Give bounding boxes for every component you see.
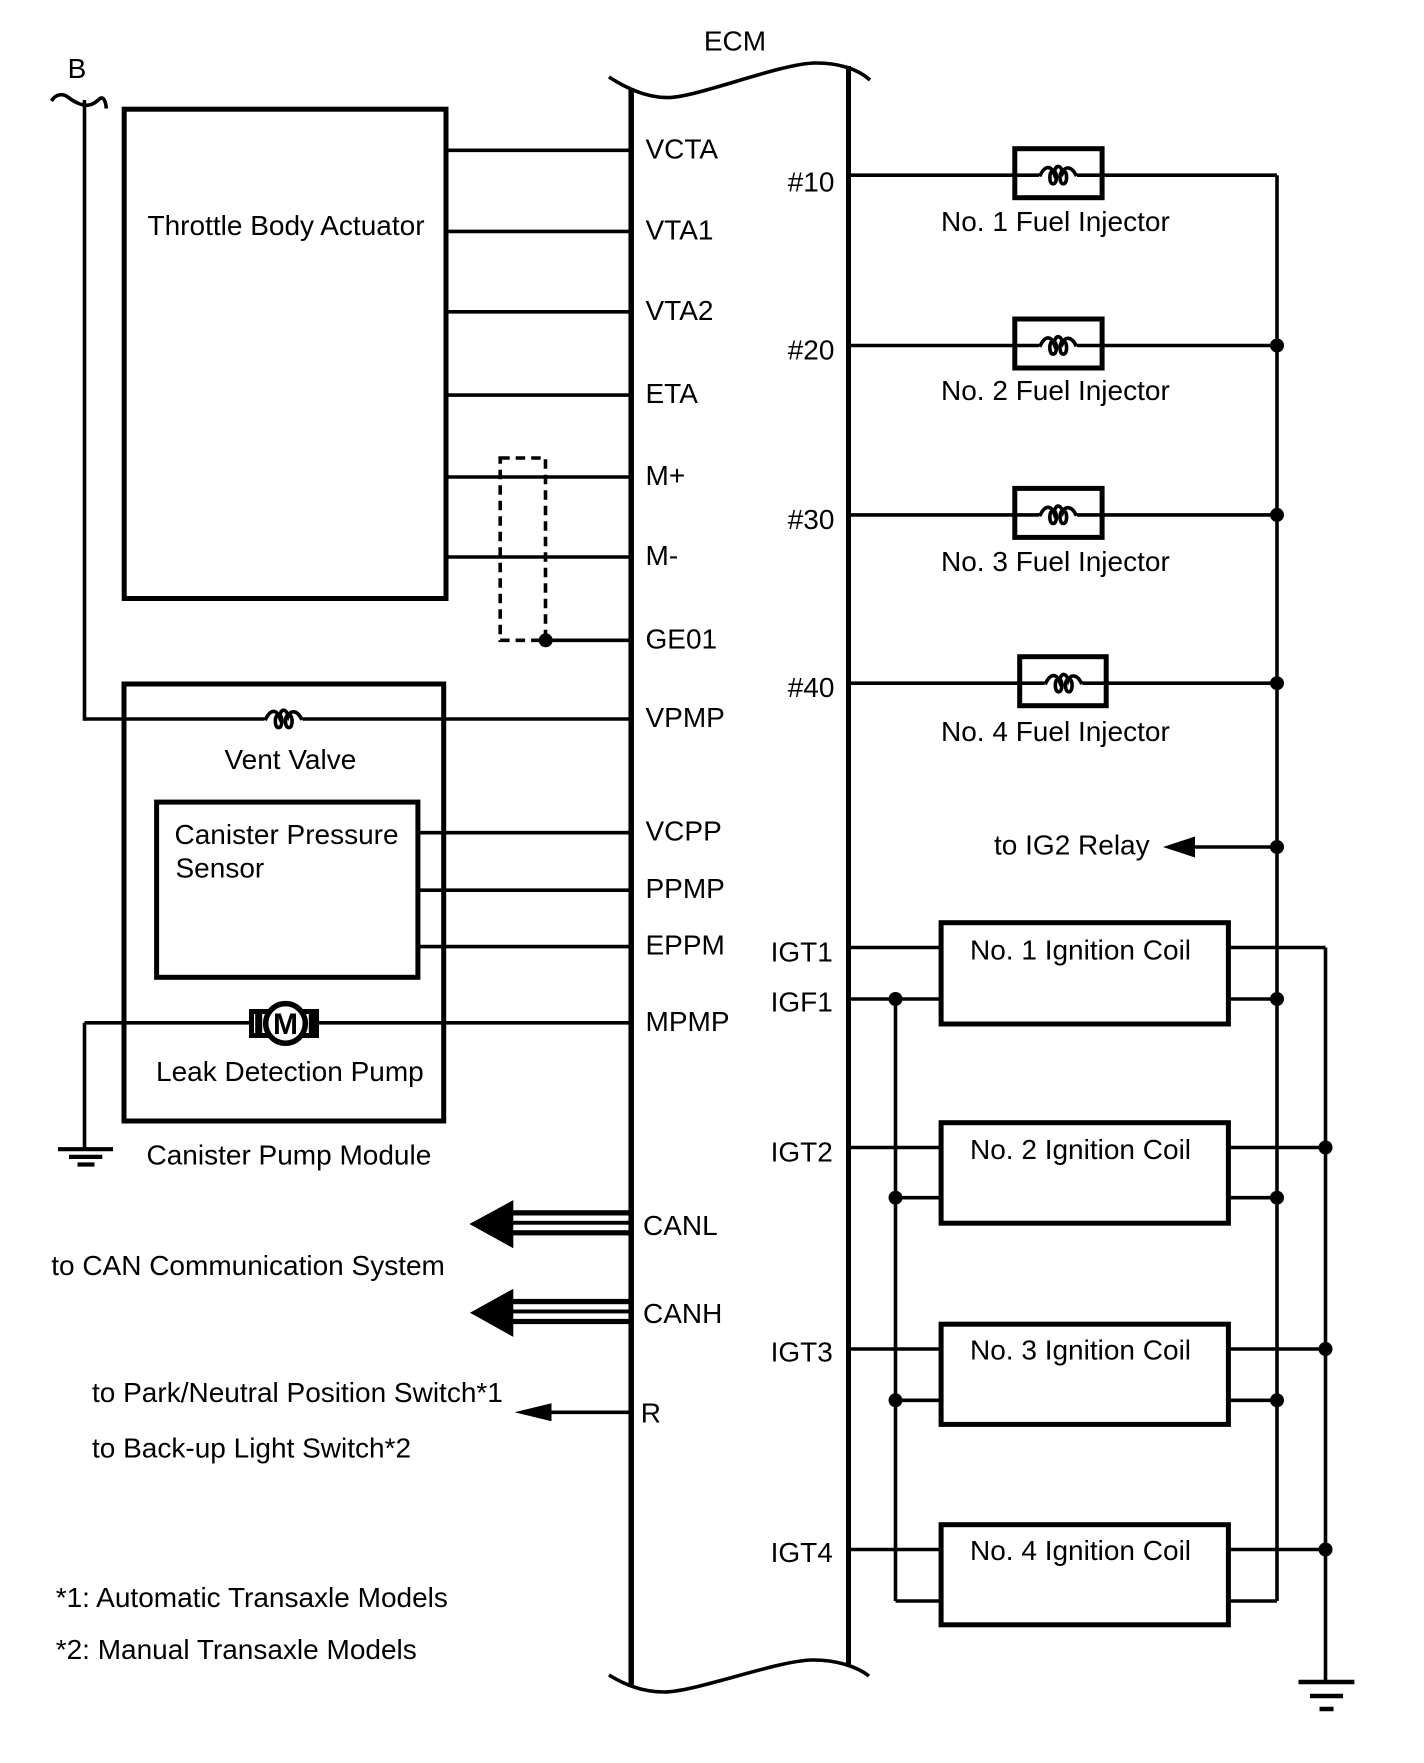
IGF feedback vertical wire [894,999,898,1601]
wire IGT4 [849,1548,941,1552]
svg-text:IGT4: IGT4 [771,1537,833,1568]
wire ETA [446,393,629,397]
Canister Pump Module box [124,684,444,1121]
svg-text:to CAN Communication System: to CAN Communication System [51,1250,445,1281]
to Park/Neutral Position Switch label [92,1377,503,1408]
No. 2 Ignition Coil label [970,1134,1191,1165]
svg-text:IGT1: IGT1 [771,936,833,967]
wire VTA1 [446,230,629,234]
wire M+ [446,475,629,479]
No. 2 fuel injector box [1015,319,1102,368]
wire PPMP [418,888,629,892]
wire IGT3 [849,1347,941,1351]
to Back-up Light Switch label [92,1432,411,1463]
wire coil3 bottom right [1228,1399,1277,1403]
vent valve solenoid coil [265,710,302,727]
wire coil4 bottom left [896,1599,942,1603]
ECM pin label GE01 [646,623,718,654]
svg-text:VTA2: VTA2 [646,295,714,326]
wire VCTA [446,149,629,153]
ECM pin label VTA1 [646,214,714,245]
No. 2 Fuel Injector label [941,375,1170,406]
No. 3 fuel injector coil [1040,506,1077,523]
wire VTA2 [446,310,629,314]
wire #20 left segment [849,344,1039,348]
ECM pin label M- [646,540,679,571]
svg-text:IGT3: IGT3 [771,1337,833,1368]
ECM pin label EPPM [646,930,725,961]
svg-text:VCPP: VCPP [646,816,722,847]
wire #10 right segment [1077,173,1277,177]
svg-text:#40: #40 [788,672,835,703]
ECM pin label IGT2 [771,1137,833,1168]
footnote 1 [56,1582,448,1613]
ECM label [704,26,766,57]
svg-text:M: M [273,1008,298,1041]
junction dot coil1/bus [1270,992,1284,1006]
wire coil1 top right [1228,946,1325,950]
svg-text:ETA: ETA [646,378,699,409]
junction dot coil2/IGF [889,1191,903,1205]
Canister Pressure Sensor label [175,819,399,884]
No. 1 Ignition Coil label [970,934,1191,965]
No. 1 Fuel Injector label [941,206,1170,237]
wire break squiggle at node B [52,95,107,109]
ECM pin label VCPP [646,816,722,847]
No. 4 ignition coil box [941,1525,1228,1625]
No. 4 Ignition Coil label [970,1535,1191,1566]
svg-text:#20: #20 [788,335,835,366]
junction dot #40/bus [1270,676,1284,690]
No. 3 Fuel Injector label [941,546,1170,577]
wire #30 right segment [1077,513,1277,517]
wire coil3 top right [1228,1347,1325,1351]
ECM pin label #20 [788,335,835,366]
Throttle Body Actuator label [148,210,425,241]
ground symbol (ignition coils) [1299,1682,1355,1709]
svg-text:VTA1: VTA1 [646,214,714,245]
ignition ground vertical wire [1324,948,1328,1683]
to CAN Communication System label [51,1250,445,1281]
ECM pin label VCTA [646,133,719,164]
svg-text:#30: #30 [788,504,835,535]
junction dot coil3/bus [1270,1393,1284,1407]
junction dot IG2/bus [1270,840,1284,854]
svg-text:VCTA: VCTA [646,133,719,164]
ECM pin label CANL [643,1210,718,1241]
svg-text:No. 3 Ignition Coil: No. 3 Ignition Coil [970,1335,1191,1366]
junction dot IGF1 [889,992,903,1006]
svg-text:M+: M+ [646,460,686,491]
No. 4 Fuel Injector label [941,716,1170,747]
svg-text:*1: Automatic Transaxle Models: *1: Automatic Transaxle Models [56,1582,448,1613]
svg-text:No. 1 Ignition Coil: No. 1 Ignition Coil [970,934,1191,965]
No. 2 fuel injector coil [1040,337,1077,354]
No. 3 fuel injector box [1015,488,1102,537]
footnote 2 [56,1634,417,1665]
svg-text:#10: #10 [788,166,835,197]
wire VPMP right segment [303,717,630,721]
svg-text:Throttle Body Actuator: Throttle Body Actuator [148,210,425,241]
ECM pin label PPMP [646,873,725,904]
svg-text:Leak Detection Pump: Leak Detection Pump [156,1056,424,1087]
svg-text:No. 3 Fuel Injector: No. 3 Fuel Injector [941,546,1170,577]
junction dot coil2/ground line [1319,1141,1333,1155]
svg-text:No. 2 Fuel Injector: No. 2 Fuel Injector [941,375,1170,406]
wire IGT1 [849,946,941,950]
ECM right boundary line [846,66,851,1665]
ECM pin label #40 [788,672,835,703]
svg-text:ECM: ECM [704,26,766,57]
wire GE01 [546,638,629,642]
ECM pin label #30 [788,504,835,535]
wire coil2 top right [1228,1146,1325,1150]
No. 2 ignition coil box [941,1123,1228,1224]
R pin arrow [515,1403,630,1421]
wire coil4 top right [1228,1548,1325,1552]
wire from node B down to VPMP [83,100,87,721]
wire #40 left segment [849,681,1045,685]
wire VCPP [418,831,629,835]
wire VPMP left segment [85,717,265,721]
wire coil1 bottom right [1228,997,1277,1001]
ECM pin label MPMP [646,1006,730,1037]
ECM top break wave [609,63,870,98]
wire M- [446,555,629,559]
ECM pin label IGF1 [771,987,833,1018]
svg-text:B: B [68,53,87,84]
ECM pin label VPMP [646,702,725,733]
junction dot coil4/ground line [1319,1543,1333,1557]
svg-text:No. 4 Fuel Injector: No. 4 Fuel Injector [941,716,1170,747]
IG2 relay arrow [1163,837,1277,858]
wire MPMP right segment [316,1021,629,1025]
wire coil2 bottom left [896,1196,942,1200]
svg-text:EPPM: EPPM [646,930,725,961]
supply bus vertical wire [1275,175,1279,1601]
Throttle Body Actuator box [124,109,446,598]
svg-text:Sensor: Sensor [176,853,265,884]
junction dot #20/bus [1270,339,1284,353]
shield junction dot on GE01 [539,633,553,647]
svg-text:to Back-up Light Switch*2: to Back-up Light Switch*2 [92,1432,411,1463]
wire IGF1 [849,997,941,1001]
svg-text:M-: M- [646,540,679,571]
ECM pin label R [641,1398,661,1429]
shielded cable dashed box around M+/M- [500,458,545,640]
No. 1 fuel injector coil [1040,166,1077,183]
Canister Pressure Sensor box [157,802,418,977]
junction dot #30/bus [1270,508,1284,522]
wire coil4 bottom right [1228,1599,1277,1603]
svg-text:Canister Pump Module: Canister Pump Module [147,1140,432,1171]
svg-text:CANH: CANH [643,1298,722,1329]
ECM pin label VTA2 [646,295,714,326]
svg-text:MPMP: MPMP [646,1006,730,1037]
wire #10 left segment [849,173,1039,177]
svg-text:VPMP: VPMP [646,702,725,733]
svg-text:No. 4 Ignition Coil: No. 4 Ignition Coil [970,1535,1191,1566]
No. 3 Ignition Coil label [970,1335,1191,1366]
svg-text:No. 1 Fuel Injector: No. 1 Fuel Injector [941,206,1170,237]
ECM pin label #10 [788,166,835,197]
node B label [68,53,87,84]
CANH fat arrow to CAN bus [470,1289,629,1337]
ECM pin label IGT3 [771,1337,833,1368]
junction dot coil3/ground line [1319,1342,1333,1356]
svg-text:IGT2: IGT2 [771,1137,833,1168]
ECM pin label CANH [643,1298,722,1329]
No. 1 fuel injector box [1015,149,1102,198]
ground symbol (canister pump module) [58,1149,113,1164]
CANL fat arrow to CAN bus [469,1200,628,1248]
wire #30 left segment [849,513,1039,517]
svg-text:GE01: GE01 [646,623,718,654]
wire #40 right segment [1083,681,1278,685]
svg-text:Canister Pressure: Canister Pressure [175,819,399,850]
svg-text:CANL: CANL [643,1210,718,1241]
wire IGT2 [849,1146,941,1150]
No. 4 fuel injector box [1020,657,1106,706]
wire coil3 bottom left [896,1399,942,1403]
No. 4 fuel injector coil [1045,674,1082,691]
ECM left boundary line [628,88,634,1686]
leak detection pump motor M1 [252,1004,317,1044]
No. 3 ignition coil box [941,1324,1228,1424]
svg-text:R: R [641,1398,661,1429]
to IG2 Relay label [994,830,1150,861]
svg-text:IGF1: IGF1 [771,987,833,1018]
svg-text:No. 2 Ignition Coil: No. 2 Ignition Coil [970,1134,1191,1165]
svg-text:to Park/Neutral Position Switc: to Park/Neutral Position Switch*1 [92,1377,503,1408]
Canister Pump Module label [147,1140,432,1171]
svg-text:to IG2 Relay: to IG2 Relay [994,830,1150,861]
Leak Detection Pump label [156,1056,424,1087]
junction dot coil2/bus [1270,1191,1284,1205]
junction dot coil3/IGF [889,1393,903,1407]
wire EPPM [418,945,629,949]
ECM pin label M+ [646,460,686,491]
wire MPMP left segment [85,1021,253,1025]
Vent Valve label [225,744,357,775]
ECM pin label IGT1 [771,936,833,967]
No. 1 ignition coil box [941,923,1228,1024]
svg-text:PPMP: PPMP [646,873,725,904]
ECM pin label IGT4 [771,1537,833,1568]
svg-text:Vent Valve: Vent Valve [225,744,357,775]
wire MPMP down to ground [83,1023,87,1149]
wire #20 right segment [1077,344,1277,348]
wire coil2 bottom right [1228,1196,1277,1200]
ECM pin label ETA [646,378,699,409]
ECM bottom break wave [609,1660,869,1692]
svg-text:*2: Manual Transaxle Models: *2: Manual Transaxle Models [56,1634,417,1665]
